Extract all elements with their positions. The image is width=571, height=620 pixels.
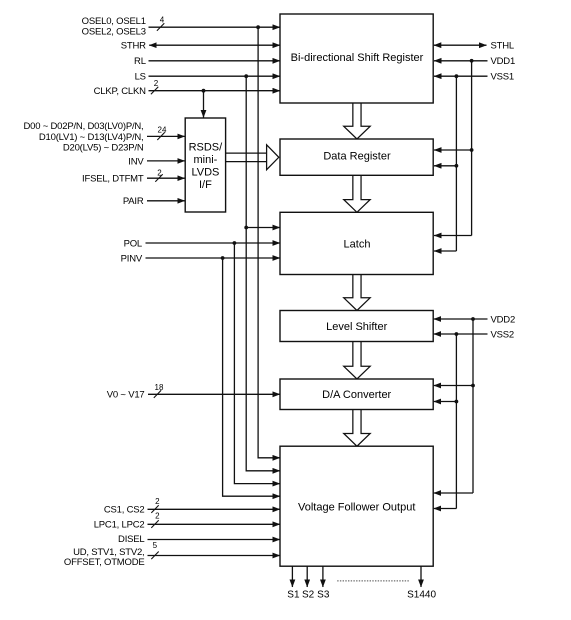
bus slash OSEL /4 [157,23,164,31]
block arrow Shift Register to Data Register [344,103,370,139]
wire CLK drop into RSDS top [203,91,205,118]
svg-text:2: 2 [154,79,159,88]
wire LS [149,75,281,77]
wire UD STV bus [148,555,281,557]
wire POL [146,242,281,244]
junction VSS1 [455,74,459,78]
wire VDD1 branch into Latch [434,235,472,237]
ellipsis dotted line between S3 and S1440 [337,580,409,582]
svg-text:RSDS/: RSDS/ [189,142,224,154]
wire CS1 CS2 [148,508,281,510]
bus slash D /24 [157,132,164,140]
svg-text:OFFSET, OTMODE: OFFSET, OTMODE [64,557,145,568]
bus slash UD /5 [151,552,158,560]
svg-text:DISEL: DISEL [118,534,144,545]
svg-text:S1440: S1440 [407,590,436,601]
wire output S1 [291,566,293,587]
wire PINV vertical drop [223,258,280,496]
svg-text:D00 ~ D02P/N, D03(LV0)P/N,: D00 ~ D02P/N, D03(LV0)P/N, [23,121,143,132]
junction PINV/drop [221,256,225,260]
block D/A Converter [280,379,433,410]
wire CLKP CLKN [149,90,281,92]
svg-text:Bi-directional Shift Register: Bi-directional Shift Register [291,52,424,64]
svg-text:D/A Converter: D/A Converter [322,389,391,401]
wire INV [147,160,185,162]
svg-text:RL: RL [134,56,146,67]
block arrow Level Shifter to D/A [344,342,370,380]
junction LS/Latch branch [244,226,248,230]
svg-text:mini-: mini- [193,154,217,166]
block Voltage Follower Output [280,446,433,566]
svg-text:LPC1, LPC2: LPC1, LPC2 [94,520,145,531]
svg-text:Level Shifter: Level Shifter [326,321,387,333]
svg-text:STHL: STHL [491,41,514,52]
junction CLK/drop [202,89,206,93]
svg-text:IFSEL, DTFMT: IFSEL, DTFMT [82,174,144,185]
wire VSS1 branch into Data Register [434,165,456,167]
block Data Register [280,139,433,175]
wire OSEL vertical drop to Voltage Follower [258,27,280,458]
block Bi-directional Shift Register [280,14,433,103]
svg-text:OSEL2, OSEL3: OSEL2, OSEL3 [82,27,146,38]
svg-text:D20(LV5) ~ D23P/N: D20(LV5) ~ D23P/N [63,143,144,154]
wire VDD1 [434,60,488,62]
wire OSEL bus horizontal [149,26,281,28]
svg-text:D10(LV1) ~ D13(LV4)P/N,: D10(LV1) ~ D13(LV4)P/N, [39,132,144,143]
svg-text:PAIR: PAIR [123,196,144,207]
wire LS vertical drop [246,76,280,471]
wire VSS2 [434,333,488,335]
wire output S1440 [420,566,422,587]
svg-text:LVDS: LVDS [191,167,219,179]
wire STHR bidirectional [149,44,280,46]
bus slash CS /2 [151,505,158,513]
svg-text:PINV: PINV [121,253,143,264]
svg-text:2: 2 [155,512,160,521]
svg-text:24: 24 [158,126,167,135]
junction VSS2/DA [455,400,459,404]
svg-text:VDD1: VDD1 [491,56,516,67]
svg-text:OSEL0, OSEL1: OSEL0, OSEL1 [82,16,146,27]
bus slash LPC /2 [151,520,158,528]
svg-text:Voltage Follower Output: Voltage Follower Output [298,501,415,513]
svg-text:2: 2 [155,497,160,506]
wire DISEL [148,539,281,541]
junction VDD2/DA [471,384,475,388]
junction VSS2 [455,332,459,336]
svg-text:2: 2 [157,169,162,178]
block Level Shifter [280,311,433,342]
block RSDS/mini-LVDS I/F [185,118,225,212]
svg-text:5: 5 [153,541,158,550]
svg-text:Latch: Latch [344,238,371,250]
wire VSS2 branch into Voltage Follower [434,508,457,510]
wire V0-V17 bus into D/A [148,393,280,395]
bus slash IFSEL /2 [155,174,162,182]
junction VSS1/Data Register [455,164,459,168]
wire VDD1 branch into Data Register [434,149,472,151]
wire IFSEL DTFMT [147,177,185,179]
wire RSDS output pair lower [226,161,267,163]
svg-text:INV: INV [128,156,144,167]
block arrow RSDS to Data Register (horizontal) [267,145,279,170]
wire PINV [146,257,281,259]
svg-text:LS: LS [135,72,146,83]
svg-text:VDD2: VDD2 [491,314,516,325]
wire output S3 [322,566,324,587]
svg-text:S3: S3 [317,590,330,601]
wire output S2 [306,566,308,587]
wire D data bus into RSDS [147,135,185,137]
svg-text:I/F: I/F [199,179,212,191]
svg-text:STHR: STHR [121,41,146,52]
svg-text:18: 18 [155,383,164,392]
junction OSEL/drop [256,25,260,29]
svg-text:S2: S2 [302,590,315,601]
wire VSS1 vertical rail [455,76,457,251]
bus slash V /18 [154,390,161,398]
wire VSS2 vertical rail [455,334,457,509]
svg-text:VSS1: VSS1 [491,72,515,83]
wire RL [149,60,281,62]
svg-text:Data Register: Data Register [323,151,391,163]
wire VSS2 branch into D/A Converter [434,401,457,403]
svg-text:CS1, CS2: CS1, CS2 [104,505,145,516]
wire VDD2 [434,318,488,320]
wire VDD2 branch into D/A Converter [434,385,473,387]
wire RSDS output pair upper [226,152,267,154]
wire STHL bidirectional [434,44,487,46]
block arrow Data Register to Latch [344,175,370,212]
junction LS/drop [244,74,248,78]
junction POL/drop [233,241,237,245]
svg-text:VSS2: VSS2 [491,329,515,340]
wire VDD2 branch into Voltage Follower [434,492,473,494]
block arrow Latch to Level Shifter [344,275,370,311]
svg-text:4: 4 [160,16,165,25]
wire LS branch into Latch [246,227,280,229]
junction VDD1/Data Register [470,148,474,152]
wire LPC1 LPC2 [148,523,281,525]
wire VDD1 vertical rail [471,61,473,236]
svg-text:CLKP, CLKN: CLKP, CLKN [94,86,147,97]
block Latch [280,212,433,274]
junction VDD1 [470,59,474,63]
svg-text:S1: S1 [287,590,300,601]
wire VSS1 branch into Latch [434,250,456,252]
bus slash CLK /2 [151,87,158,95]
wire VDD2 vertical rail [472,319,474,493]
wire POL vertical drop [234,243,280,484]
block arrow D/A to Voltage Follower [344,410,370,447]
svg-text:V0 ~ V17: V0 ~ V17 [107,390,145,401]
junction VDD2 [471,317,475,321]
svg-text:POL: POL [124,238,142,249]
wire VSS1 [434,75,488,77]
wire PAIR [147,200,185,202]
